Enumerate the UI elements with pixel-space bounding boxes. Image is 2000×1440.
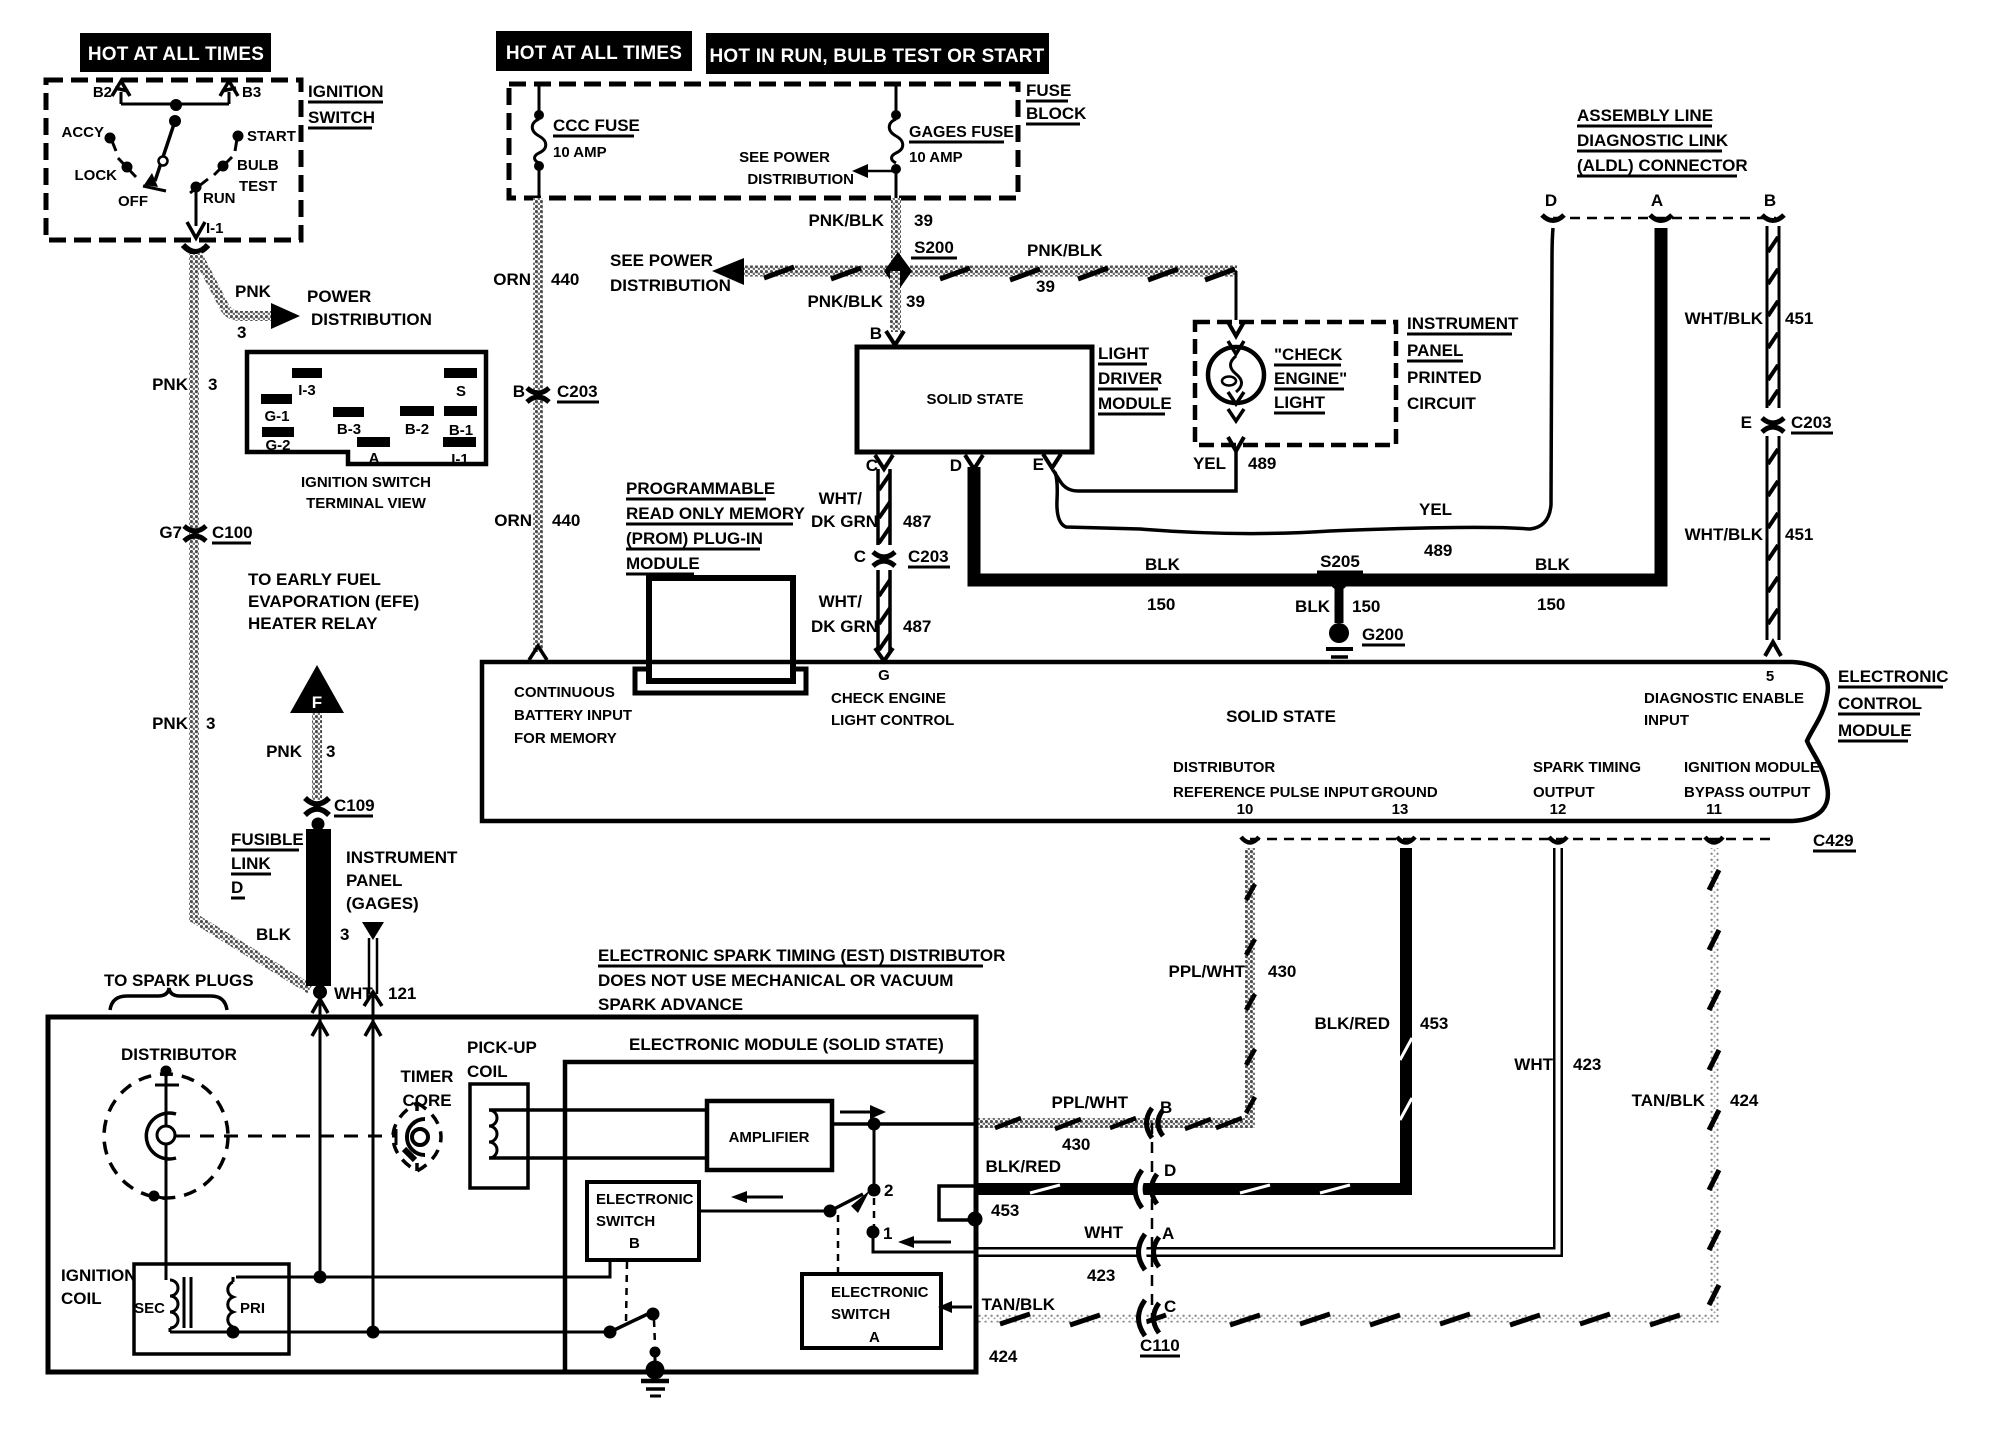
svg-text:440: 440 [552, 511, 580, 530]
wire pick-up to amplifier (bottom) [489, 1156, 707, 1160]
svg-text:SOLID STATE: SOLID STATE [927, 391, 1024, 408]
svg-text:WHT/BLK: WHT/BLK [1685, 309, 1764, 328]
wire amplifier output [832, 1122, 976, 1126]
svg-text:OFF: OFF [118, 193, 148, 210]
wire 121 double line [368, 938, 371, 994]
svg-text:D: D [1164, 1161, 1176, 1180]
ALDL connector dashed line [1553, 217, 1776, 220]
svg-text:WHT: WHT [334, 984, 373, 1003]
connector C203 (wht/dk grn) [854, 547, 950, 567]
svg-text:LINK: LINK [231, 854, 271, 873]
svg-text:FOR MEMORY: FOR MEMORY [514, 730, 617, 747]
wire WHT/BLK 451 (lower) [1767, 436, 1779, 640]
label electronic control module [1838, 667, 1949, 741]
svg-text:39: 39 [1036, 277, 1055, 296]
svg-text:RUN: RUN [203, 190, 236, 207]
svg-text:SWITCH: SWITCH [596, 1213, 655, 1230]
svg-text:451: 451 [1785, 525, 1813, 544]
node bus junction [170, 99, 182, 111]
svg-text:C100: C100 [212, 523, 253, 542]
svg-text:YEL: YEL [1193, 454, 1226, 473]
wire PNK branch to power distribution [197, 254, 272, 316]
svg-text:BYPASS OUTPUT: BYPASS OUTPUT [1684, 784, 1810, 801]
switch arm (coil ground) [604, 1326, 617, 1339]
wire 121 into distributor box [372, 994, 375, 1332]
check engine bulb [1208, 341, 1264, 421]
svg-text:EVAPORATION (EFE): EVAPORATION (EFE) [248, 592, 419, 611]
svg-text:487: 487 [903, 512, 931, 531]
fuse CCC [532, 84, 640, 198]
svg-text:423: 423 [1573, 1055, 1601, 1074]
ECM box [482, 662, 1793, 821]
timer core symbol [393, 1103, 441, 1171]
svg-text:12: 12 [1550, 801, 1567, 818]
C429 pin 11 [1705, 837, 1723, 843]
fuse GAGES [889, 84, 1014, 198]
rotor arc [146, 1113, 176, 1159]
svg-text:SWITCH: SWITCH [308, 108, 375, 127]
node WHT at coil wire [314, 1271, 327, 1284]
node PRI bottom [227, 1326, 240, 1339]
node WHT junction [313, 985, 327, 999]
label instrument panel printed circuit [1407, 314, 1519, 413]
svg-text:DRIVER: DRIVER [1098, 369, 1162, 388]
label check engine light [1274, 345, 1347, 413]
dashed to ground [654, 1320, 655, 1345]
svg-text:DIAGNOSTIC ENABLE: DIAGNOSTIC ENABLE [1644, 690, 1804, 707]
amplifier box [707, 1101, 832, 1170]
svg-text:MODULE: MODULE [626, 554, 700, 573]
svg-text:39: 39 [906, 292, 925, 311]
svg-text:PRI: PRI [240, 1300, 265, 1317]
wire YEL 489 pin E to ALDL D [1055, 228, 1553, 534]
svg-text:BLK: BLK [256, 925, 292, 944]
svg-text:S: S [456, 383, 466, 400]
arrow see power distribution (S200) [712, 258, 744, 285]
node 121 end [367, 1326, 380, 1339]
svg-text:DISTRIBUTOR: DISTRIBUTOR [1173, 759, 1275, 776]
contact LOCK [75, 158, 137, 184]
svg-text:3: 3 [237, 323, 246, 342]
connector below ignition switch [183, 245, 208, 252]
svg-text:HOT AT ALL TIMES: HOT AT ALL TIMES [506, 43, 682, 64]
C429 pin 12 [1549, 837, 1567, 843]
wire B2-B3 bus [121, 103, 229, 106]
instrument panel feed triangle [362, 922, 384, 940]
wire ORN 440 (vertical) [533, 198, 543, 652]
svg-text:A: A [869, 1329, 880, 1346]
svg-text:DK GRN: DK GRN [811, 617, 878, 636]
pin 5 flare [1765, 642, 1781, 656]
dashed switch B control [626, 1262, 627, 1322]
ECM right brace [1793, 662, 1828, 821]
svg-text:B: B [629, 1235, 640, 1252]
terminal I-3 [292, 368, 322, 378]
svg-text:(ALDL) CONNECTOR: (ALDL) CONNECTOR [1577, 156, 1748, 175]
contact ACCY [61, 124, 116, 151]
svg-text:424: 424 [989, 1347, 1018, 1366]
module edge loop (blk/red) [939, 1186, 974, 1220]
svg-text:START: START [247, 128, 296, 145]
svg-text:DOES NOT USE MECHANICAL OR VAC: DOES NOT USE MECHANICAL OR VACUUM [598, 971, 953, 990]
svg-text:430: 430 [1268, 962, 1296, 981]
wire BLK/RED 453 [976, 848, 1406, 1189]
wire WHT/DK GRN 487 (lower) [875, 570, 893, 661]
ignition coil box [134, 1264, 289, 1354]
svg-text:CONTINUOUS: CONTINUOUS [514, 684, 615, 701]
svg-text:489: 489 [1248, 454, 1276, 473]
coil bottom bus [170, 1331, 610, 1334]
light driver module box [857, 347, 1092, 452]
node above fusible link [312, 818, 325, 831]
pin below check engine box [1228, 437, 1244, 451]
svg-text:3: 3 [340, 925, 349, 944]
svg-text:150: 150 [1147, 595, 1175, 614]
terminal I-1 [443, 437, 476, 447]
svg-text:TEST: TEST [239, 178, 277, 195]
svg-text:WHT/BLK: WHT/BLK [1685, 525, 1764, 544]
svg-text:B: B [870, 324, 882, 343]
svg-text:LIGHT CONTROL: LIGHT CONTROL [831, 712, 954, 729]
svg-text:BLK: BLK [1535, 555, 1571, 574]
arrow toward switch B [745, 1196, 783, 1199]
svg-text:PNK: PNK [266, 742, 303, 761]
svg-text:LIGHT: LIGHT [1098, 344, 1150, 363]
svg-text:REFERENCE PULSE INPUT: REFERENCE PULSE INPUT [1173, 784, 1369, 801]
switch arm to contact 2 [824, 1205, 837, 1218]
svg-text:PANEL: PANEL [346, 871, 402, 890]
svg-text:MODULE: MODULE [1098, 394, 1172, 413]
svg-text:S200: S200 [914, 238, 954, 257]
svg-text:G-2: G-2 [265, 437, 290, 454]
fuse block dashed box [509, 84, 1018, 198]
svg-text:(GAGES): (GAGES) [346, 894, 419, 913]
connector C203 (orn) [513, 382, 599, 402]
electronic switch A box [802, 1274, 941, 1348]
svg-text:AMPLIFIER: AMPLIFIER [729, 1129, 810, 1146]
ignition switch terminal view box [247, 352, 486, 464]
svg-text:489: 489 [1424, 541, 1452, 560]
svg-text:3: 3 [208, 375, 217, 394]
dashed contact link [873, 1198, 876, 1226]
svg-text:SOLID STATE: SOLID STATE [1226, 707, 1336, 726]
svg-text:PANEL: PANEL [1407, 341, 1463, 360]
svg-text:GAGES FUSE: GAGES FUSE [909, 124, 1014, 141]
svg-text:E: E [1033, 455, 1044, 474]
svg-text:C203: C203 [1791, 413, 1832, 432]
svg-text:ELECTRONIC SPARK TIMING (EST): ELECTRONIC SPARK TIMING (EST) DISTRIBUTO… [598, 946, 1005, 965]
svg-text:C109: C109 [334, 796, 375, 815]
wire WHT/BLK 451 (upper) [1767, 226, 1779, 408]
terminal G-1 [261, 394, 292, 404]
label EST distributor note [598, 946, 1005, 1014]
svg-text:FUSE: FUSE [1026, 81, 1071, 100]
header HOT IN RUN BULB TEST OR START [706, 33, 1049, 74]
svg-text:F: F [312, 693, 322, 712]
svg-text:PPL/WHT: PPL/WHT [1052, 1093, 1129, 1112]
svg-text:WHT: WHT [1514, 1055, 1553, 1074]
svg-text:B-2: B-2 [405, 421, 429, 438]
connector C109 [305, 796, 375, 816]
label fuse block [1026, 81, 1087, 124]
wire BLK 150 ground stub [1335, 589, 1344, 623]
fusible link D (heavy bar) [306, 829, 331, 986]
svg-text:READ ONLY MEMORY: READ ONLY MEMORY [626, 504, 806, 523]
svg-text:DISTRIBUTION: DISTRIBUTION [610, 276, 731, 295]
terminal G-2 [262, 427, 294, 437]
arrow power distribution [271, 303, 300, 329]
svg-text:BLK: BLK [1145, 555, 1181, 574]
distributor dashed circle [104, 1074, 228, 1198]
svg-text:ELECTRONIC: ELECTRONIC [831, 1284, 929, 1301]
svg-text:INSTRUMENT: INSTRUMENT [346, 848, 458, 867]
dashed from pivot to switch A [837, 1215, 840, 1272]
svg-text:121: 121 [388, 984, 416, 1003]
svg-text:COIL: COIL [61, 1289, 102, 1308]
svg-text:BATTERY INPUT: BATTERY INPUT [514, 707, 632, 724]
svg-text:PICK-UP: PICK-UP [467, 1038, 537, 1057]
svg-text:G200: G200 [1362, 625, 1404, 644]
svg-text:S205: S205 [1320, 552, 1360, 571]
header HOT AT ALL TIMES (middle) [496, 31, 692, 71]
svg-text:CORE: CORE [402, 1091, 451, 1110]
svg-text:SEC: SEC [134, 1300, 165, 1317]
contact RUN [190, 179, 236, 207]
wire PNK 3 from F [312, 713, 322, 800]
svg-text:YEL: YEL [1419, 500, 1452, 519]
svg-text:DISTRIBUTION: DISTRIBUTION [311, 310, 432, 329]
connector C110 dashed line [1151, 1123, 1154, 1318]
terminal B-1 [444, 406, 477, 416]
coil core [183, 1277, 186, 1328]
svg-text:ELECTRONIC: ELECTRONIC [596, 1191, 694, 1208]
arrow into wht wire [912, 1241, 951, 1244]
wire PNK/BLK to light driver module [890, 271, 900, 330]
svg-text:C110: C110 [1140, 1336, 1180, 1355]
svg-text:PNK: PNK [235, 282, 272, 301]
svg-text:D: D [231, 878, 243, 897]
svg-text:C203: C203 [557, 382, 598, 401]
svg-text:COIL: COIL [467, 1062, 508, 1081]
svg-text:B-1: B-1 [449, 422, 473, 439]
terminal B-2 [400, 406, 434, 416]
wire rotor arm to OFF [155, 121, 175, 181]
svg-text:PNK: PNK [152, 714, 189, 733]
svg-text:13: 13 [1392, 801, 1409, 818]
svg-text:ORN: ORN [493, 270, 531, 289]
svg-text:MODULE: MODULE [1838, 721, 1912, 740]
svg-text:B: B [1764, 191, 1776, 210]
svg-text:B2: B2 [93, 84, 112, 101]
terminal A [357, 437, 390, 447]
contact 1 [867, 1226, 880, 1239]
svg-text:TO EARLY FUEL: TO EARLY FUEL [248, 570, 381, 589]
svg-text:I-1: I-1 [206, 220, 224, 237]
svg-text:ORN: ORN [494, 511, 532, 530]
svg-text:POWER: POWER [307, 287, 371, 306]
svg-text:TERMINAL VIEW: TERMINAL VIEW [306, 495, 427, 512]
electronic switch B box [587, 1182, 699, 1260]
svg-text:DISTRIBUTION: DISTRIBUTION [747, 171, 854, 188]
wire PNK/BLK 39 horizontal run [740, 266, 1237, 277]
dashed shaft line to timer core [176, 1135, 395, 1138]
svg-text:LOCK: LOCK [75, 167, 118, 184]
svg-text:5: 5 [1766, 668, 1774, 685]
svg-text:TO SPARK PLUGS: TO SPARK PLUGS [104, 971, 254, 990]
terminal B2 arrow [93, 81, 130, 104]
svg-text:WHT/: WHT/ [819, 489, 863, 508]
svg-text:IGNITION MODULE: IGNITION MODULE [1684, 759, 1820, 776]
svg-text:BLOCK: BLOCK [1026, 104, 1087, 123]
svg-text:PROGRAMMABLE: PROGRAMMABLE [626, 479, 775, 498]
wire WHT/DK GRN 487 (upper) [878, 469, 890, 545]
pick-up coil box [470, 1084, 528, 1188]
svg-text:424: 424 [1730, 1091, 1759, 1110]
contact START [233, 128, 296, 151]
wire WHT into distributor box [319, 995, 322, 1282]
svg-text:440: 440 [551, 270, 579, 289]
svg-text:SWITCH: SWITCH [831, 1306, 890, 1323]
svg-text:DISTRIBUTOR: DISTRIBUTOR [121, 1045, 237, 1064]
svg-text:D: D [1545, 191, 1557, 210]
svg-text:A: A [1162, 1224, 1174, 1243]
svg-text:I-1: I-1 [451, 451, 469, 468]
svg-text:IGNITION: IGNITION [308, 82, 384, 101]
header HOT AT ALL TIMES (left) [80, 33, 271, 72]
svg-text:HOT AT ALL TIMES: HOT AT ALL TIMES [88, 44, 264, 65]
svg-text:PNK/BLK: PNK/BLK [808, 211, 884, 230]
svg-text:487: 487 [903, 617, 931, 636]
label fusible link [231, 830, 304, 898]
svg-text:HEATER RELAY: HEATER RELAY [248, 614, 378, 633]
svg-text:BLK/RED: BLK/RED [1314, 1014, 1390, 1033]
wire PNK 3 from ignition switch (vertical) [194, 254, 310, 989]
label light driver module [1098, 344, 1172, 414]
instrument panel dashed box [1195, 322, 1396, 445]
svg-text:B: B [513, 382, 525, 401]
svg-text:ELECTRONIC: ELECTRONIC [1838, 667, 1949, 686]
svg-text:G7: G7 [159, 523, 182, 542]
svg-text:C: C [1164, 1297, 1176, 1316]
svg-text:ASSEMBLY LINE: ASSEMBLY LINE [1577, 106, 1713, 125]
node F triangle [290, 665, 344, 713]
svg-text:OUTPUT: OUTPUT [1533, 784, 1595, 801]
ground at module bottom [650, 1347, 661, 1358]
rotor center [157, 1126, 175, 1144]
pick-up coil winding [489, 1110, 497, 1158]
svg-text:(PROM) PLUG-IN: (PROM) PLUG-IN [626, 529, 763, 548]
svg-text:CONTROL: CONTROL [1838, 694, 1922, 713]
svg-text:SEE POWER: SEE POWER [739, 149, 830, 166]
wire TAN/BLK 424 [978, 848, 1714, 1318]
svg-text:ENGINE": ENGINE" [1274, 369, 1347, 388]
svg-text:A: A [369, 450, 380, 467]
svg-text:SPARK TIMING: SPARK TIMING [1533, 759, 1641, 776]
svg-text:TAN/BLK: TAN/BLK [982, 1295, 1056, 1314]
svg-text:CIRCUIT: CIRCUIT [1407, 394, 1477, 413]
svg-text:PPL/WHT: PPL/WHT [1169, 962, 1246, 981]
svg-text:453: 453 [991, 1201, 1019, 1220]
wire pick-up to amplifier (top) [489, 1108, 707, 1112]
svg-text:451: 451 [1785, 309, 1813, 328]
PROM module box [649, 578, 793, 681]
label ALDL connector [1577, 106, 1748, 176]
hatching on PNK/BLK run [764, 267, 1235, 280]
node distributor top [161, 1066, 172, 1077]
contact BULB TEST [214, 157, 279, 195]
svg-text:IGNITION: IGNITION [61, 1266, 137, 1285]
svg-text:ACCY: ACCY [61, 124, 104, 141]
svg-text:WHT: WHT [1084, 1223, 1123, 1242]
EST distributor outer box [48, 1017, 976, 1372]
svg-text:D: D [950, 456, 962, 475]
svg-text:DK GRN: DK GRN [811, 512, 878, 531]
electronic module inner box [565, 1062, 974, 1372]
svg-text:LIGHT: LIGHT [1274, 393, 1326, 412]
ground G200 [1326, 623, 1405, 657]
wire PNK/BLK to check engine light [1235, 271, 1238, 320]
svg-text:3: 3 [326, 742, 335, 761]
wire to contact 2 [873, 1124, 876, 1186]
svg-text:CHECK ENGINE: CHECK ENGINE [831, 690, 946, 707]
svg-text:IGNITION SWITCH: IGNITION SWITCH [301, 474, 431, 491]
terminal B3 arrow [220, 81, 261, 104]
svg-text:SPARK ADVANCE: SPARK ADVANCE [598, 995, 743, 1014]
terminal S [444, 368, 477, 378]
splice S200 node [884, 252, 912, 291]
svg-text:E: E [1741, 413, 1752, 432]
node rotor pivot [169, 115, 181, 127]
wire WHT 423 [976, 848, 1558, 1252]
svg-text:C: C [854, 547, 866, 566]
terminal B-3 [333, 407, 364, 417]
arrow see power distribution (fuse block) [739, 149, 893, 188]
connector C429 dashed line [1250, 838, 1770, 841]
svg-text:11: 11 [1706, 801, 1722, 818]
svg-text:I-3: I-3 [298, 382, 316, 399]
svg-text:A: A [1651, 191, 1663, 210]
svg-text:CCC FUSE: CCC FUSE [553, 116, 640, 135]
C429 pin 10 [1241, 837, 1259, 843]
svg-text:10 AMP: 10 AMP [553, 144, 607, 161]
svg-text:TAN/BLK: TAN/BLK [1632, 1091, 1706, 1110]
svg-text:PRINTED: PRINTED [1407, 368, 1482, 387]
svg-text:150: 150 [1352, 597, 1380, 616]
arrow out of amplifier [840, 1111, 872, 1114]
svg-text:2: 2 [884, 1181, 893, 1200]
PROM socket [635, 669, 806, 693]
node distributor lower [149, 1191, 160, 1202]
node amp output [868, 1118, 881, 1131]
svg-text:C429: C429 [1813, 831, 1854, 850]
svg-text:INPUT: INPUT [1644, 712, 1689, 729]
wire YEL 489 bulb to pin E [1053, 451, 1236, 491]
connector C203 (wht/blk) [1741, 413, 1833, 433]
svg-text:B3: B3 [242, 84, 261, 101]
svg-text:3: 3 [206, 714, 215, 733]
svg-text:TIMER: TIMER [401, 1067, 454, 1086]
svg-text:"CHECK: "CHECK [1274, 345, 1343, 364]
label PROM [626, 479, 806, 574]
wire switch B to coil primary [236, 1260, 610, 1277]
rotor shaft [155, 1084, 179, 1087]
svg-text:423: 423 [1087, 1266, 1115, 1285]
wire pivot to switch B [699, 1210, 830, 1213]
svg-text:430: 430 [1062, 1135, 1090, 1154]
ignition switch title [308, 82, 384, 128]
wire contact 1 out [873, 1232, 976, 1252]
C429 pin 13 [1397, 837, 1415, 843]
